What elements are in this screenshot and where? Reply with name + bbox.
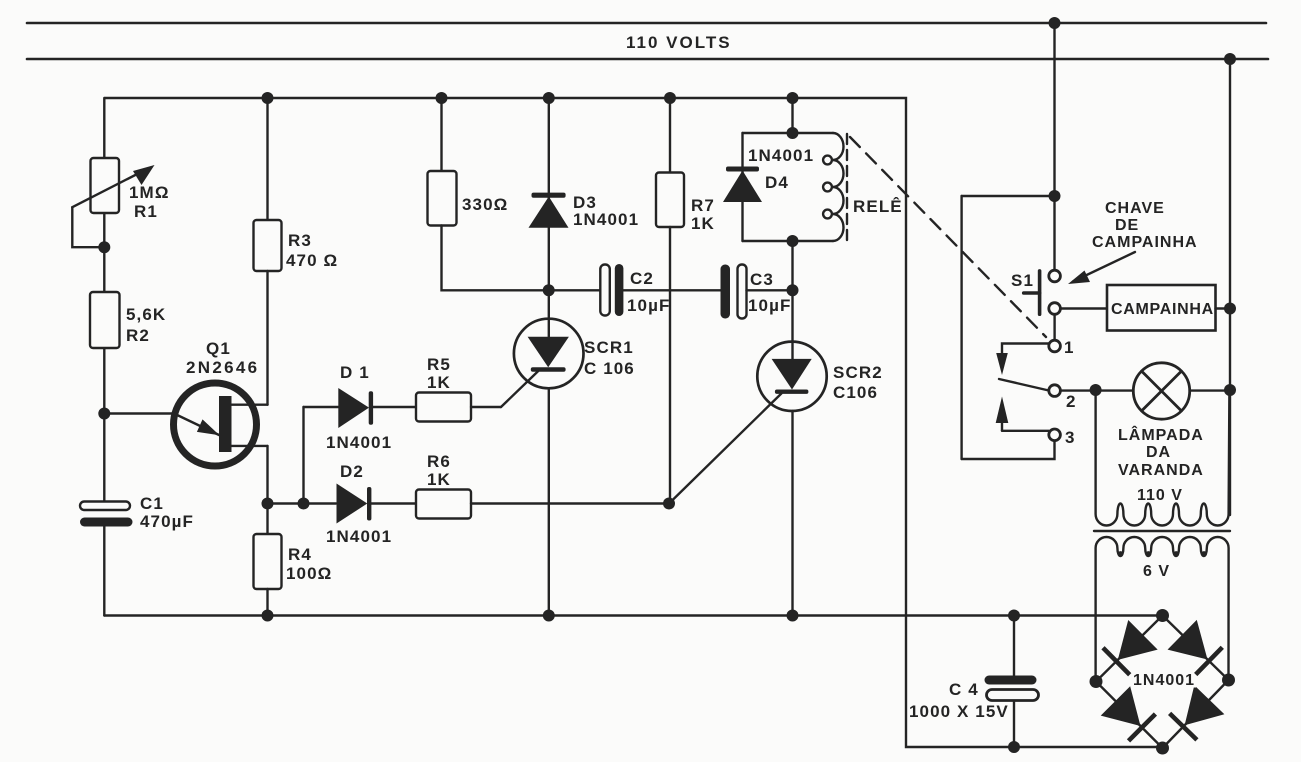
svg-text:10µF: 10µF (627, 296, 671, 315)
svg-text:LÂMPADA: LÂMPADA (1118, 425, 1204, 444)
svg-text:2: 2 (1066, 392, 1077, 411)
svg-text:1: 1 (1064, 338, 1075, 357)
svg-text:1N4001: 1N4001 (326, 433, 392, 452)
svg-text:S1: S1 (1011, 271, 1034, 290)
svg-text:D 1: D 1 (340, 363, 370, 382)
svg-text:5,6K: 5,6K (126, 305, 166, 324)
svg-text:C 4: C 4 (949, 680, 979, 699)
svg-text:6 V: 6 V (1143, 563, 1170, 580)
svg-text:R7: R7 (691, 196, 715, 215)
svg-text:C3: C3 (750, 270, 774, 289)
svg-text:110 VOLTS: 110 VOLTS (626, 33, 732, 52)
svg-text:2N2646: 2N2646 (186, 358, 259, 377)
svg-text:100Ω: 100Ω (286, 564, 332, 583)
svg-text:R2: R2 (126, 326, 150, 345)
svg-text:R1: R1 (134, 202, 158, 221)
svg-text:1000 X 15V: 1000 X 15V (909, 702, 1009, 721)
svg-text:470µF: 470µF (140, 512, 194, 531)
svg-text:C 106: C 106 (584, 359, 635, 378)
svg-text:VARANDA: VARANDA (1118, 462, 1204, 479)
svg-text:1MΩ: 1MΩ (129, 183, 170, 202)
svg-text:1N4001: 1N4001 (1133, 672, 1195, 689)
svg-text:R6: R6 (427, 452, 451, 471)
svg-text:3: 3 (1065, 428, 1076, 447)
svg-text:SCR2: SCR2 (833, 363, 883, 382)
svg-text:D4: D4 (765, 173, 789, 192)
svg-text:D2: D2 (340, 462, 364, 481)
svg-text:CAMPAINHA: CAMPAINHA (1092, 234, 1198, 251)
svg-text:470 Ω: 470 Ω (286, 251, 338, 270)
svg-text:Q1: Q1 (206, 339, 231, 358)
svg-text:CAMPAINHA: CAMPAINHA (1111, 301, 1214, 318)
svg-text:330Ω: 330Ω (462, 195, 508, 214)
svg-text:SCR1: SCR1 (584, 338, 634, 357)
svg-text:1N4001: 1N4001 (326, 527, 392, 546)
svg-text:1N4001: 1N4001 (748, 146, 814, 165)
svg-text:C2: C2 (630, 269, 654, 288)
svg-text:1K: 1K (427, 470, 451, 489)
svg-text:DA: DA (1146, 444, 1171, 461)
svg-text:RELÊ: RELÊ (853, 197, 903, 216)
svg-text:1N4001: 1N4001 (573, 210, 639, 229)
svg-text:R4: R4 (288, 545, 312, 564)
svg-text:110 V: 110 V (1137, 487, 1183, 504)
svg-text:10µF: 10µF (748, 296, 792, 315)
svg-text:C1: C1 (140, 494, 164, 513)
svg-text:1K: 1K (691, 214, 715, 233)
svg-text:CHAVE: CHAVE (1105, 200, 1165, 217)
svg-text:R3: R3 (288, 231, 312, 250)
svg-text:DE: DE (1115, 217, 1139, 234)
svg-text:C106: C106 (833, 383, 878, 402)
svg-text:R5: R5 (427, 355, 451, 374)
svg-text:1K: 1K (427, 373, 451, 392)
